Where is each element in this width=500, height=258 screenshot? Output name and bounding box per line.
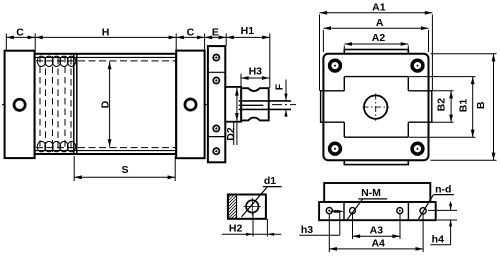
hole 4 — [420, 208, 426, 214]
spring coils bottom — [37, 141, 75, 151]
dimension H3 — [241, 74, 270, 88]
spring coils top — [37, 56, 75, 66]
tube inner wall bottom — [36, 150, 177, 152]
svg-text:A: A — [376, 17, 384, 29]
hole 2 — [350, 208, 356, 214]
screw 2 — [213, 77, 219, 83]
dimension A2 — [344, 44, 408, 50]
dimension C right — [176, 34, 204, 51]
svg-text:N-M: N-M — [361, 187, 381, 199]
dimension H — [35, 34, 176, 51]
svg-text:A1: A1 — [372, 2, 386, 14]
dimension H1 — [226, 34, 270, 88]
bottom view upper plate — [324, 183, 430, 202]
rod slot top line — [239, 100, 291, 102]
hole 1 — [326, 208, 332, 214]
front view side strip right — [428, 91, 431, 122]
bolt top-left — [330, 60, 341, 71]
centerline axis — [2, 104, 296, 106]
svg-text:S: S — [121, 164, 128, 176]
crosshair horizontal — [363, 106, 390, 108]
spring section hatch — [40, 56, 71, 152]
svg-text:B1: B1 — [458, 99, 470, 113]
dimension D — [109, 62, 111, 147]
hole 3 — [397, 208, 403, 214]
crosshair vertical — [375, 94, 377, 121]
svg-text:H2: H2 — [229, 223, 243, 235]
nut hole crosshair — [244, 205, 262, 207]
plate divider top — [208, 71, 225, 73]
dimension B — [431, 54, 497, 160]
svg-text:E: E — [212, 26, 219, 38]
bolt top-right — [412, 60, 423, 71]
front view tube slab top — [344, 50, 408, 55]
nut hole — [246, 200, 258, 212]
nut detail square — [228, 195, 266, 219]
front view side strip left — [321, 91, 324, 122]
dimension D2 — [236, 88, 238, 121]
divider right — [407, 202, 409, 220]
center rod hole — [364, 95, 387, 118]
dimension h3 — [299, 210, 344, 252]
bolt bottom-right — [412, 143, 423, 154]
dimension h4 — [428, 202, 457, 245]
svg-text:H3: H3 — [249, 66, 263, 78]
svg-text:h3: h3 — [301, 224, 313, 236]
dimension F — [284, 80, 287, 117]
svg-text:B: B — [475, 101, 487, 109]
svg-text:A4: A4 — [371, 238, 385, 250]
svg-text:n-d: n-d — [435, 184, 451, 196]
nut hatch strip — [229, 195, 237, 218]
inner body square — [324, 77, 428, 138]
dimension E — [205, 34, 227, 46]
leader N-M — [347, 199, 363, 220]
rod end block — [241, 88, 269, 120]
svg-text:d1: d1 — [264, 175, 276, 187]
leader d1 — [242, 187, 268, 217]
right cap plate — [176, 51, 204, 159]
screw 1 — [213, 55, 219, 61]
front view tube slab bottom — [344, 160, 408, 164]
svg-text:H1: H1 — [241, 25, 255, 37]
divider left — [343, 202, 345, 220]
leader n-d — [419, 195, 434, 219]
svg-text:F: F — [273, 83, 285, 90]
plate divider bottom — [208, 136, 225, 138]
rod boss — [225, 87, 241, 122]
rod slot bottom line — [239, 108, 291, 110]
dimension A — [323, 28, 428, 52]
bore hidden line bottom — [36, 147, 176, 149]
rod cover plate E — [208, 46, 225, 162]
dimension C left — [6, 34, 35, 51]
svg-text:C: C — [16, 26, 24, 38]
svg-text:A3: A3 — [370, 224, 384, 236]
screw 4 — [213, 148, 219, 154]
left mounting plate — [5, 51, 35, 158]
dimension B2 — [432, 91, 454, 122]
screw 3 — [213, 125, 219, 131]
rod slot middle line — [239, 104, 264, 106]
dimension A1 — [320, 13, 433, 91]
dimension A4 — [329, 214, 423, 252]
svg-text:D: D — [99, 100, 111, 108]
bottom view lower plate — [319, 202, 436, 220]
svg-text:C: C — [187, 26, 195, 38]
left port hole — [14, 99, 25, 110]
cylinder tube body — [35, 54, 177, 154]
svg-text:h4: h4 — [432, 233, 444, 245]
dimension A3 — [353, 214, 401, 239]
svg-text:D2: D2 — [225, 127, 237, 141]
front flange square — [323, 54, 428, 160]
svg-text:A2: A2 — [372, 32, 386, 44]
tube inner wall top — [36, 56, 177, 58]
piston face — [73, 55, 75, 154]
dimension H2 — [222, 213, 281, 237]
bolt bottom-left — [330, 143, 341, 154]
bore hidden line top — [36, 60, 176, 62]
dimension B1 — [409, 77, 476, 138]
svg-text:H: H — [102, 26, 110, 38]
dimension S — [74, 156, 175, 181]
svg-text:B2: B2 — [436, 98, 448, 112]
right port hole — [185, 99, 196, 110]
